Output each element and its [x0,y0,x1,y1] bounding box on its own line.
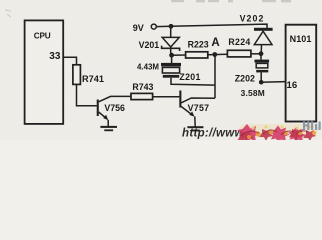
crystal resonator Z201 [161,55,181,78]
transistor V757 [179,91,215,117]
wire: V757 collector up to node A [214,54,216,98]
resistor R741 [73,65,81,85]
resistor R224 [227,50,251,57]
wire: Z202 bottom to N101 pin 16 [261,72,285,82]
wire: CPU pin 33 to R741 top [63,57,76,65]
node A junction [212,52,217,57]
scan noise overlay (decorative) [0,0,322,140]
wire: R224 to V202 anode [251,53,261,55]
wire: Z201 bottom to collector line of V757 [171,78,215,85]
wire: V757 emitter down [194,117,196,127]
faint smudge top-left margin [5,10,11,17]
wire: 9V rail to V202 [156,24,267,28]
junction node (V202 / R224 / Z202) [259,51,264,56]
junction node (rail / V201) [169,24,174,29]
IC U? CPU box [25,20,64,124]
wire: V756 emitter down [107,120,109,127]
junction node (V201 / Z201 / R223) [169,53,174,58]
wire: R741 bottom to V756 base [77,84,97,105]
ground (V757 emitter) [187,126,203,131]
transistor V756 [97,96,132,120]
ground (V756 emitter) [100,126,117,131]
watermark flower glyphs [237,121,321,144]
wire: R743 to V757 base [153,96,180,98]
wire: R223 to node A [208,53,228,56]
faint cut-off text remnants along top edge [171,0,291,2]
wire: node to R223 [172,54,186,56]
zener diode V201 [162,26,180,55]
junction node (Z202 bottom) [259,80,264,85]
9V terminal circle [151,24,156,29]
resistor R743 [131,93,153,99]
resistor R223 [186,52,208,58]
diode V202 [254,28,273,54]
IC N101 box [286,25,317,122]
crystal resonator Z202 [255,54,270,73]
